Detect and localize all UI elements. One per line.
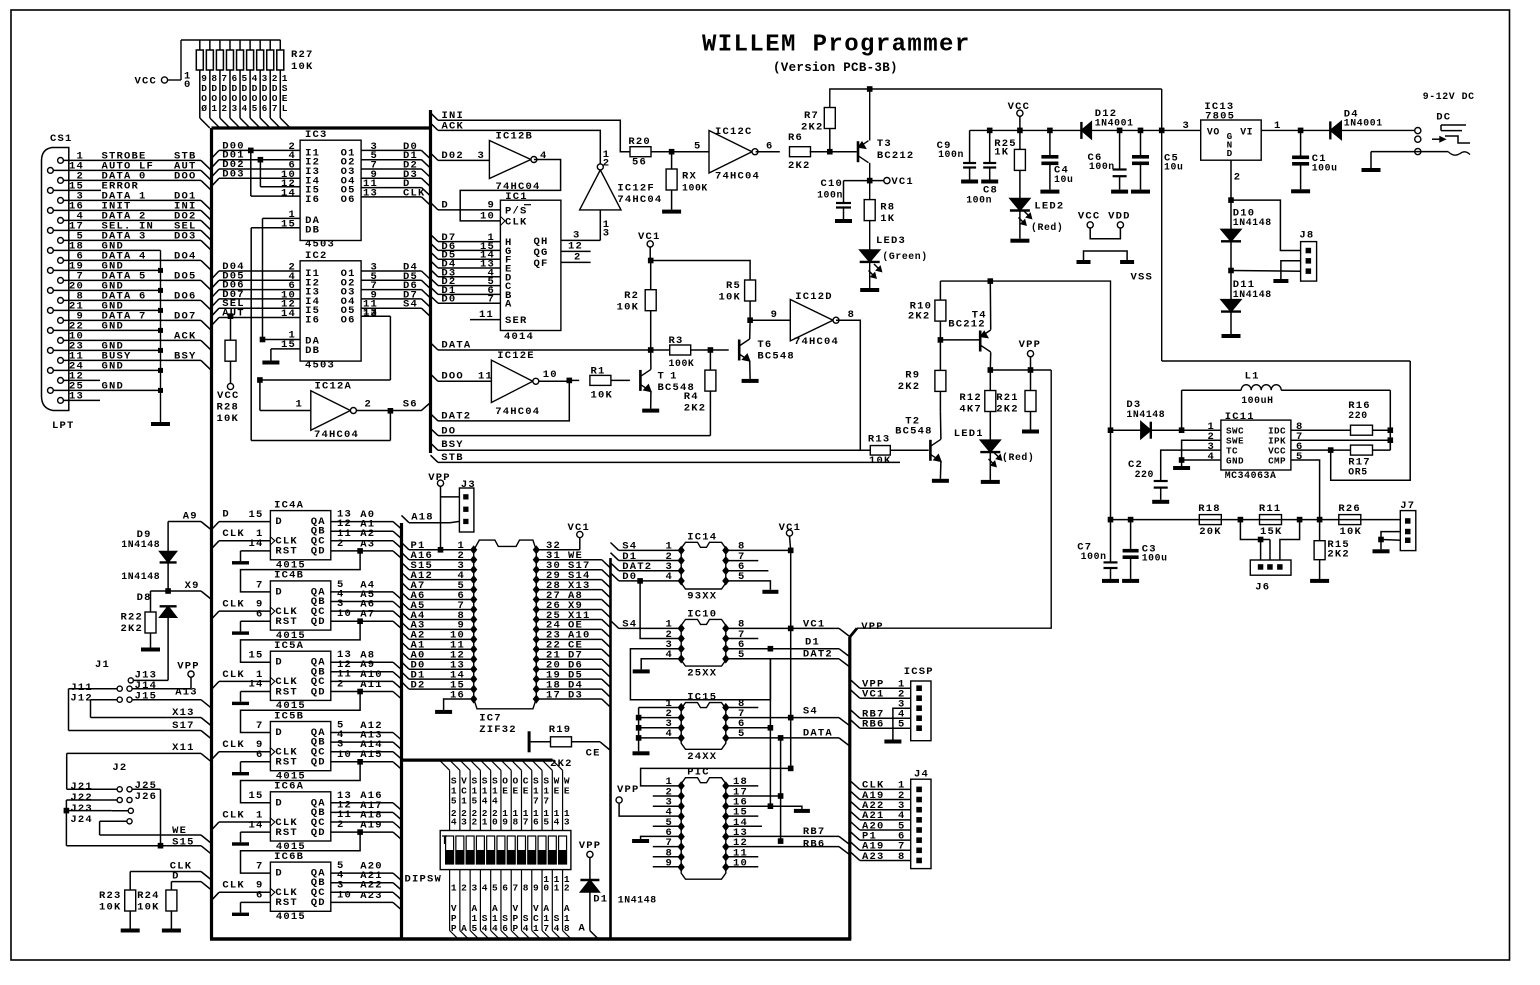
IC14 pin 3 DAT2 bbox=[678, 566, 685, 575]
svg-text:IC7: IC7 bbox=[479, 713, 502, 725]
ground C7 bbox=[1102, 579, 1119, 583]
svg-text:56: 56 bbox=[632, 157, 647, 169]
svg-text:DO4: DO4 bbox=[174, 250, 197, 262]
svg-text:0: 0 bbox=[543, 882, 549, 893]
svg-text:5: 5 bbox=[543, 816, 549, 827]
svg-text:R22: R22 bbox=[120, 612, 143, 624]
svg-text:5: 5 bbox=[451, 796, 457, 807]
svg-text:DB: DB bbox=[305, 345, 320, 357]
svg-text:2: 2 bbox=[337, 679, 345, 691]
svg-text:(Red): (Red) bbox=[1002, 452, 1034, 463]
IC14 pin 4 D0 bbox=[678, 576, 685, 585]
svg-text:IC12A: IC12A bbox=[315, 380, 353, 392]
wire IC15 pin8 stub bbox=[726, 707, 759, 709]
wire into bus bbox=[201, 340, 212, 350]
svg-text:VC1: VC1 bbox=[891, 176, 914, 188]
svg-text:1: 1 bbox=[211, 103, 217, 114]
svg-text:3: 3 bbox=[231, 103, 237, 114]
svg-text:100u: 100u bbox=[1312, 163, 1338, 174]
wire D0 junction to IC10 pin2 bbox=[637, 578, 643, 584]
IC7 ZIF32 socket outline bbox=[474, 540, 537, 709]
svg-text:IC2: IC2 bbox=[305, 250, 328, 262]
wire IC11 pin8 IDC to R16 bbox=[1291, 429, 1351, 431]
wire IC11 pin5 CMP down bbox=[1291, 460, 1320, 520]
wire PIC pin12 RB6 bbox=[726, 846, 839, 848]
wire PIC pin11 stub bbox=[726, 856, 759, 858]
svg-text:IC1: IC1 bbox=[505, 191, 528, 203]
svg-text:R9: R9 bbox=[905, 370, 920, 382]
ZIF pin 19 D5 bbox=[533, 675, 540, 684]
svg-text:(Green): (Green) bbox=[882, 251, 927, 262]
ground C2 bbox=[1152, 500, 1169, 504]
wire J8 pin3 from D11 top bbox=[1231, 270, 1301, 273]
svg-text:10K: 10K bbox=[137, 902, 160, 914]
svg-text:2: 2 bbox=[337, 538, 345, 550]
ground IC2 DB bbox=[262, 361, 279, 365]
svg-text:10K: 10K bbox=[217, 413, 240, 425]
svg-text:100u: 100u bbox=[1142, 553, 1168, 564]
svg-text:2K2: 2K2 bbox=[908, 310, 931, 322]
svg-text:8: 8 bbox=[523, 882, 529, 893]
connector CS1 pin 24 GND bbox=[48, 368, 54, 374]
wire R11 bypass left to J6 bbox=[1240, 520, 1270, 540]
wire diagonal into bus bbox=[280, 118, 290, 128]
svg-text:R23: R23 bbox=[99, 890, 122, 902]
svg-text:VC1: VC1 bbox=[803, 618, 826, 630]
svg-text:4: 4 bbox=[554, 923, 560, 934]
svg-text:QD: QD bbox=[311, 686, 326, 698]
svg-text:10K: 10K bbox=[591, 390, 614, 402]
wire IC11 pin4 GND bbox=[1182, 459, 1221, 461]
svg-text:2K2: 2K2 bbox=[684, 403, 707, 415]
wire IC2 DA from IC3 DA bbox=[262, 218, 264, 339]
svg-text:D: D bbox=[275, 727, 283, 739]
wire PIC pin10 stub bbox=[726, 866, 759, 868]
svg-text:7: 7 bbox=[513, 882, 519, 893]
svg-text:J26: J26 bbox=[135, 791, 158, 803]
svg-text:3: 3 bbox=[461, 816, 467, 827]
connector CS1 DB25 shell bbox=[42, 148, 69, 411]
resistor RX 100K bbox=[671, 152, 673, 169]
svg-text:10u: 10u bbox=[1164, 162, 1183, 173]
svg-text:D: D bbox=[275, 586, 283, 598]
wire into bus bbox=[201, 260, 212, 270]
wire diagonal into bus bbox=[230, 118, 240, 128]
IC6A output pin 12 (A17) bbox=[331, 811, 393, 813]
svg-text:J15: J15 bbox=[135, 690, 158, 702]
wire J8 pin2 to ground bbox=[1281, 261, 1301, 279]
wire IC14 pin6 stub bbox=[726, 570, 769, 572]
svg-text:5: 5 bbox=[492, 882, 498, 893]
wire T6 emitter to ground bbox=[749, 361, 751, 379]
svg-text:BC212: BC212 bbox=[877, 150, 915, 162]
svg-text:IC4A: IC4A bbox=[274, 499, 304, 511]
VPP terminal bbox=[1027, 351, 1033, 357]
VPP terminal PIC bbox=[616, 797, 622, 803]
ground LED1 bbox=[981, 480, 1000, 484]
DIPSW position 5 (S14/A14) bbox=[480, 760, 490, 770]
ground IC11 bbox=[1173, 466, 1190, 470]
wire PIC pin6 to ground bbox=[641, 836, 682, 839]
ground IC4B RST bbox=[232, 631, 249, 634]
svg-text:3: 3 bbox=[477, 150, 485, 162]
wire IC2 DB to ground bbox=[271, 348, 300, 350]
svg-text:1N4148: 1N4148 bbox=[1233, 289, 1272, 300]
wire IC14 pin8 to VC1 bbox=[726, 549, 791, 551]
ZIF pin 5 A7 bbox=[470, 585, 477, 594]
connector CS1 pin 3 DATA 1 bbox=[58, 198, 64, 204]
VC1 terminal right column bbox=[786, 530, 792, 536]
ZIF pin 28 X13 bbox=[533, 585, 540, 594]
svg-text:J1: J1 bbox=[95, 659, 110, 671]
svg-text:4: 4 bbox=[482, 923, 488, 934]
wire T2 emitter to ground bbox=[939, 461, 942, 479]
ZIF pin 8 A4 bbox=[470, 615, 477, 624]
ground LED3 bbox=[860, 288, 879, 292]
svg-text:7: 7 bbox=[543, 796, 549, 807]
svg-text:T6: T6 bbox=[757, 339, 772, 351]
wire T4 collector down bbox=[989, 352, 991, 370]
DIPSW position 1 (S15/VPP) bbox=[439, 760, 449, 770]
svg-text:IC5B: IC5B bbox=[274, 710, 304, 722]
svg-text:4K7: 4K7 bbox=[959, 403, 982, 415]
svg-text:R4: R4 bbox=[684, 391, 699, 403]
svg-text:ACK: ACK bbox=[174, 330, 197, 342]
svg-text:1N4148: 1N4148 bbox=[1126, 409, 1165, 420]
ZIF pin 16 bbox=[470, 694, 477, 703]
svg-text:Ø: Ø bbox=[201, 103, 207, 114]
svg-text:0: 0 bbox=[492, 816, 498, 827]
ground C5 bbox=[1131, 190, 1150, 194]
svg-text:CLK: CLK bbox=[222, 809, 245, 821]
svg-text:A: A bbox=[578, 923, 586, 935]
connector CS1 pin 8 DATA 6 bbox=[58, 298, 64, 304]
wire J11 to S17 row bbox=[69, 688, 117, 690]
ZIF pin 11 A1 bbox=[470, 645, 477, 654]
svg-text:E: E bbox=[502, 786, 508, 797]
svg-text:DO7: DO7 bbox=[174, 310, 197, 322]
wire into bus bbox=[201, 160, 212, 170]
wire IC14 pin5 to ground bbox=[726, 581, 771, 590]
ZIF pin 24 OE bbox=[533, 625, 540, 634]
wire VPP diagonal to bold bus bbox=[850, 628, 857, 637]
wire R20 to junction bbox=[651, 151, 709, 153]
VPP terminal J3 bbox=[437, 480, 443, 486]
svg-text:CLK: CLK bbox=[222, 669, 245, 681]
svg-text:R11: R11 bbox=[1259, 503, 1282, 515]
wire T1 collector to DATA bbox=[650, 350, 652, 369]
svg-text:9-12V DC: 9-12V DC bbox=[1423, 91, 1475, 102]
svg-text:9: 9 bbox=[502, 816, 508, 827]
svg-text:2K2: 2K2 bbox=[120, 623, 143, 635]
svg-text:RST: RST bbox=[275, 897, 298, 909]
wire T6 collector bbox=[749, 320, 751, 339]
svg-text:BSY: BSY bbox=[441, 439, 464, 451]
svg-text:6: 6 bbox=[256, 608, 264, 620]
DIPSW position 12 (WE/A18) bbox=[552, 760, 562, 770]
svg-text:3: 3 bbox=[471, 882, 477, 893]
ZIF pin 3 S15 bbox=[470, 565, 477, 574]
svg-text:L1: L1 bbox=[1245, 371, 1260, 383]
svg-text:R28: R28 bbox=[217, 402, 240, 414]
wire VPP to J3 pin1 and ZIF pin1 bbox=[440, 486, 442, 550]
svg-text:L: L bbox=[282, 103, 288, 114]
svg-text:D: D bbox=[172, 871, 180, 883]
wire into bus bbox=[201, 280, 212, 290]
svg-text:2K2: 2K2 bbox=[801, 122, 824, 134]
wire IC11 pin6 VCC to R17 bbox=[1291, 449, 1351, 451]
ZIF pin 32 bbox=[533, 545, 540, 554]
ZIF pin 9 A3 bbox=[470, 625, 477, 634]
svg-text:2K2: 2K2 bbox=[1327, 549, 1350, 561]
wire QD to next stage D bbox=[357, 689, 363, 695]
IC5B output pin 3 (A14) bbox=[331, 751, 393, 753]
svg-text:2K2: 2K2 bbox=[550, 758, 573, 770]
svg-text:1N4148: 1N4148 bbox=[1233, 217, 1272, 228]
svg-text:S6: S6 bbox=[403, 399, 418, 411]
svg-text:3: 3 bbox=[1182, 120, 1190, 132]
svg-text:C10: C10 bbox=[820, 178, 843, 190]
svg-text:100n: 100n bbox=[1089, 161, 1115, 172]
svg-text:CMP: CMP bbox=[1268, 456, 1286, 467]
connector CS1 pin 5 DATA 3 bbox=[58, 238, 64, 244]
ZIF pin 27 A8 bbox=[533, 595, 540, 604]
ZIF pin 31 WE bbox=[533, 555, 540, 564]
wire into bus bbox=[201, 360, 212, 370]
IC14 pin 6 bbox=[722, 566, 729, 575]
svg-text:A23: A23 bbox=[360, 890, 383, 902]
svg-text:VPP: VPP bbox=[428, 472, 451, 484]
connector CS1 pin 23 GND bbox=[48, 348, 54, 354]
IC5A output pin 12 (A9) bbox=[331, 671, 393, 673]
wire PIC pin16 to small ground bbox=[726, 806, 802, 809]
svg-text:RX: RX bbox=[682, 171, 697, 183]
svg-text:J24: J24 bbox=[70, 814, 93, 826]
svg-text:25XX: 25XX bbox=[687, 668, 717, 680]
svg-text:CE: CE bbox=[586, 748, 601, 760]
svg-text:7: 7 bbox=[533, 796, 539, 807]
ground bus of CS1 bbox=[160, 250, 162, 422]
DIPSW position 8 (CE/S4) bbox=[511, 760, 521, 770]
svg-text:DAT2: DAT2 bbox=[803, 648, 833, 660]
wire into bus bbox=[201, 220, 212, 230]
svg-text:CLK: CLK bbox=[222, 739, 245, 751]
wire diagonal into bus bbox=[270, 118, 280, 128]
svg-text:DB: DB bbox=[305, 224, 320, 236]
svg-text:4: 4 bbox=[523, 923, 529, 934]
DIPSW position 4 (S14/S4) bbox=[470, 760, 480, 770]
svg-text:10K: 10K bbox=[99, 902, 122, 914]
svg-text:2: 2 bbox=[461, 882, 467, 893]
wire IC3 DB down (S6 net) bbox=[250, 228, 252, 441]
resistor R27 element 3 (DO6) bbox=[259, 40, 261, 50]
IC4A output pin 2 (A3) bbox=[331, 550, 393, 552]
wire IC13 pin2 down bbox=[1230, 160, 1232, 200]
svg-text:74HC04: 74HC04 bbox=[715, 171, 760, 183]
resistor R27 element 9 (DOØ) bbox=[199, 40, 201, 50]
IC6B output pin 10 (A23) bbox=[331, 901, 393, 903]
svg-text:GND: GND bbox=[102, 360, 125, 372]
svg-text:RST: RST bbox=[275, 546, 298, 558]
svg-text:4: 4 bbox=[451, 816, 457, 827]
svg-text:100n: 100n bbox=[1081, 551, 1107, 562]
svg-text:P: P bbox=[451, 923, 457, 934]
svg-text:10u: 10u bbox=[1054, 174, 1073, 185]
ground IC6B RST bbox=[232, 913, 249, 916]
svg-text:2K2: 2K2 bbox=[898, 381, 921, 393]
svg-text:4: 4 bbox=[665, 571, 673, 583]
svg-text:RB7: RB7 bbox=[803, 826, 826, 838]
svg-text:D: D bbox=[222, 509, 230, 521]
svg-text:1: 1 bbox=[461, 796, 467, 807]
svg-text:R13: R13 bbox=[868, 434, 891, 446]
svg-text:1K: 1K bbox=[994, 147, 1009, 159]
DIPSW position 2 (VC1/A) bbox=[450, 760, 460, 770]
svg-text:R8: R8 bbox=[880, 202, 895, 214]
svg-text:S4: S4 bbox=[803, 706, 818, 718]
svg-text:D: D bbox=[1227, 148, 1233, 159]
svg-text:10: 10 bbox=[543, 369, 558, 381]
svg-text:15: 15 bbox=[248, 509, 263, 521]
wire IC11 pin7 IPK bbox=[1291, 439, 1390, 441]
svg-text:1N4148: 1N4148 bbox=[121, 571, 160, 582]
resistor R27 element 4 (DO5) bbox=[249, 40, 251, 50]
VCC terminal R28 bbox=[227, 383, 233, 389]
wire PIC pin1 to VC1 bbox=[641, 768, 791, 786]
wire T2 collector to R9 bbox=[939, 412, 942, 440]
wire PIC pin3 stub bbox=[653, 805, 681, 807]
svg-text:9: 9 bbox=[533, 882, 539, 893]
wire T3 collector to VC1 node bbox=[869, 163, 871, 181]
svg-text:100K: 100K bbox=[669, 358, 695, 369]
svg-text:2K2: 2K2 bbox=[788, 160, 811, 172]
resistor R27 element 5 (DO4) bbox=[239, 40, 241, 50]
connector CS1 pin 17 SEL. IN bbox=[48, 228, 54, 234]
DIPSW position 11 (WE/S4) bbox=[542, 760, 552, 770]
svg-text:IC12D: IC12D bbox=[795, 291, 833, 303]
svg-text:A15: A15 bbox=[360, 749, 383, 761]
ground IC5A RST bbox=[232, 702, 249, 705]
svg-text:220: 220 bbox=[1135, 469, 1154, 480]
svg-text:I6: I6 bbox=[305, 194, 320, 206]
svg-text:DO6: DO6 bbox=[174, 290, 197, 302]
wire PIC pin18 stub bbox=[726, 785, 759, 787]
ZIF pin 7 A5 bbox=[470, 605, 477, 614]
wire J7 pins 2-3 to ground bbox=[1381, 532, 1400, 540]
svg-text:IC5A: IC5A bbox=[274, 640, 304, 652]
svg-text:A18: A18 bbox=[411, 511, 434, 523]
svg-text:VCC: VCC bbox=[1008, 101, 1031, 113]
wire IC13 pin1 to D4 bbox=[1261, 129, 1330, 131]
svg-text:8: 8 bbox=[564, 923, 570, 934]
svg-text:R21: R21 bbox=[996, 392, 1019, 404]
wire IC10 pin6 D1 bbox=[726, 648, 839, 650]
ZIF pin 18 D4 bbox=[533, 685, 540, 694]
ZIF pin 21 D7 bbox=[533, 655, 540, 664]
svg-text:4015: 4015 bbox=[276, 911, 306, 923]
svg-text:IC11: IC11 bbox=[1225, 411, 1255, 423]
wire PIC pin5 stub bbox=[653, 825, 681, 827]
wire VCC rail2 bbox=[970, 129, 1082, 131]
svg-text:ICSP: ICSP bbox=[904, 666, 934, 678]
resistor R28 10K pull-up on AUT bbox=[228, 313, 234, 319]
connector CS1 pin 22 GND bbox=[48, 328, 54, 334]
wire IC12A output pin 2 to S6 bbox=[356, 410, 421, 412]
svg-text:8: 8 bbox=[848, 309, 856, 321]
svg-text:RST: RST bbox=[275, 757, 298, 769]
svg-text:AUT: AUT bbox=[222, 308, 245, 320]
svg-text:15K: 15K bbox=[1260, 526, 1283, 538]
svg-text:13: 13 bbox=[69, 390, 84, 402]
ZIF pin 22 CE bbox=[533, 645, 540, 654]
svg-text:RB6: RB6 bbox=[803, 838, 826, 850]
connector CS1 pin 20 GND bbox=[48, 288, 54, 294]
svg-text:2: 2 bbox=[471, 816, 477, 827]
bus top bold edge bbox=[212, 126, 431, 129]
svg-text:E: E bbox=[523, 786, 529, 797]
svg-text:9: 9 bbox=[771, 309, 779, 321]
resistor R27 element 8 (DO1) bbox=[209, 40, 211, 50]
svg-text:VSS: VSS bbox=[1131, 272, 1154, 284]
wire IC12F input from QH bbox=[599, 210, 601, 241]
svg-text:6: 6 bbox=[533, 816, 539, 827]
wire T3 emitter to rail bbox=[869, 89, 871, 141]
wire T4 emitter up bbox=[989, 281, 991, 330]
svg-text:A13: A13 bbox=[175, 687, 198, 699]
svg-text:IC12B: IC12B bbox=[496, 131, 534, 143]
ground D11 bbox=[1222, 334, 1241, 338]
svg-text:93XX: 93XX bbox=[687, 591, 717, 603]
svg-text:D2: D2 bbox=[411, 679, 426, 691]
svg-text:74HC04: 74HC04 bbox=[314, 429, 359, 441]
connector CS1 pin 15 ERROR bbox=[48, 188, 54, 194]
svg-text:4503: 4503 bbox=[305, 359, 335, 371]
svg-text:A: A bbox=[505, 299, 513, 311]
wire pin6 loop to VCC net bbox=[1331, 361, 1411, 480]
IC4A output pin 12 (A1) bbox=[331, 530, 393, 532]
wire PIC pin13 RB7 bbox=[726, 835, 839, 837]
svg-text:17: 17 bbox=[546, 689, 561, 701]
svg-text:WILLEM Programmer: WILLEM Programmer bbox=[702, 32, 971, 59]
IC5B output pin 4 (A13) bbox=[331, 741, 393, 743]
ground R15 bbox=[1310, 579, 1329, 583]
svg-text:QD: QD bbox=[311, 616, 326, 628]
connector CS1 pin 11 BUSY bbox=[58, 358, 64, 364]
svg-text:6: 6 bbox=[262, 103, 268, 114]
ZIF pin 17 D3 bbox=[533, 694, 540, 703]
svg-text:1K: 1K bbox=[880, 213, 895, 225]
wire IC11 pin3 TC to C2 bbox=[1161, 450, 1221, 481]
svg-text:SER: SER bbox=[505, 315, 528, 327]
svg-text:10K: 10K bbox=[718, 292, 741, 304]
ZIF pin 26 X9 bbox=[533, 605, 540, 614]
svg-text:QD: QD bbox=[311, 827, 326, 839]
wire R7 to VCC rail bbox=[830, 89, 1162, 108]
svg-text:1: 1 bbox=[554, 882, 560, 893]
svg-text:I6: I6 bbox=[305, 315, 320, 327]
svg-text:7: 7 bbox=[256, 720, 264, 732]
IC6A output pin 2 (A19) bbox=[331, 831, 393, 833]
svg-text:LED3: LED3 bbox=[876, 235, 906, 247]
connector CS1 pin 4 DATA 2 bbox=[58, 218, 64, 224]
svg-text:IC14: IC14 bbox=[687, 531, 717, 543]
svg-text:1: 1 bbox=[295, 399, 303, 411]
svg-text:VPP: VPP bbox=[1019, 339, 1042, 351]
svg-text:7805: 7805 bbox=[1205, 111, 1235, 123]
svg-text:R27: R27 bbox=[291, 49, 314, 61]
connector CS1 pin 1 STROBE bbox=[58, 158, 64, 164]
svg-text:MC34063A: MC34063A bbox=[1225, 470, 1277, 481]
